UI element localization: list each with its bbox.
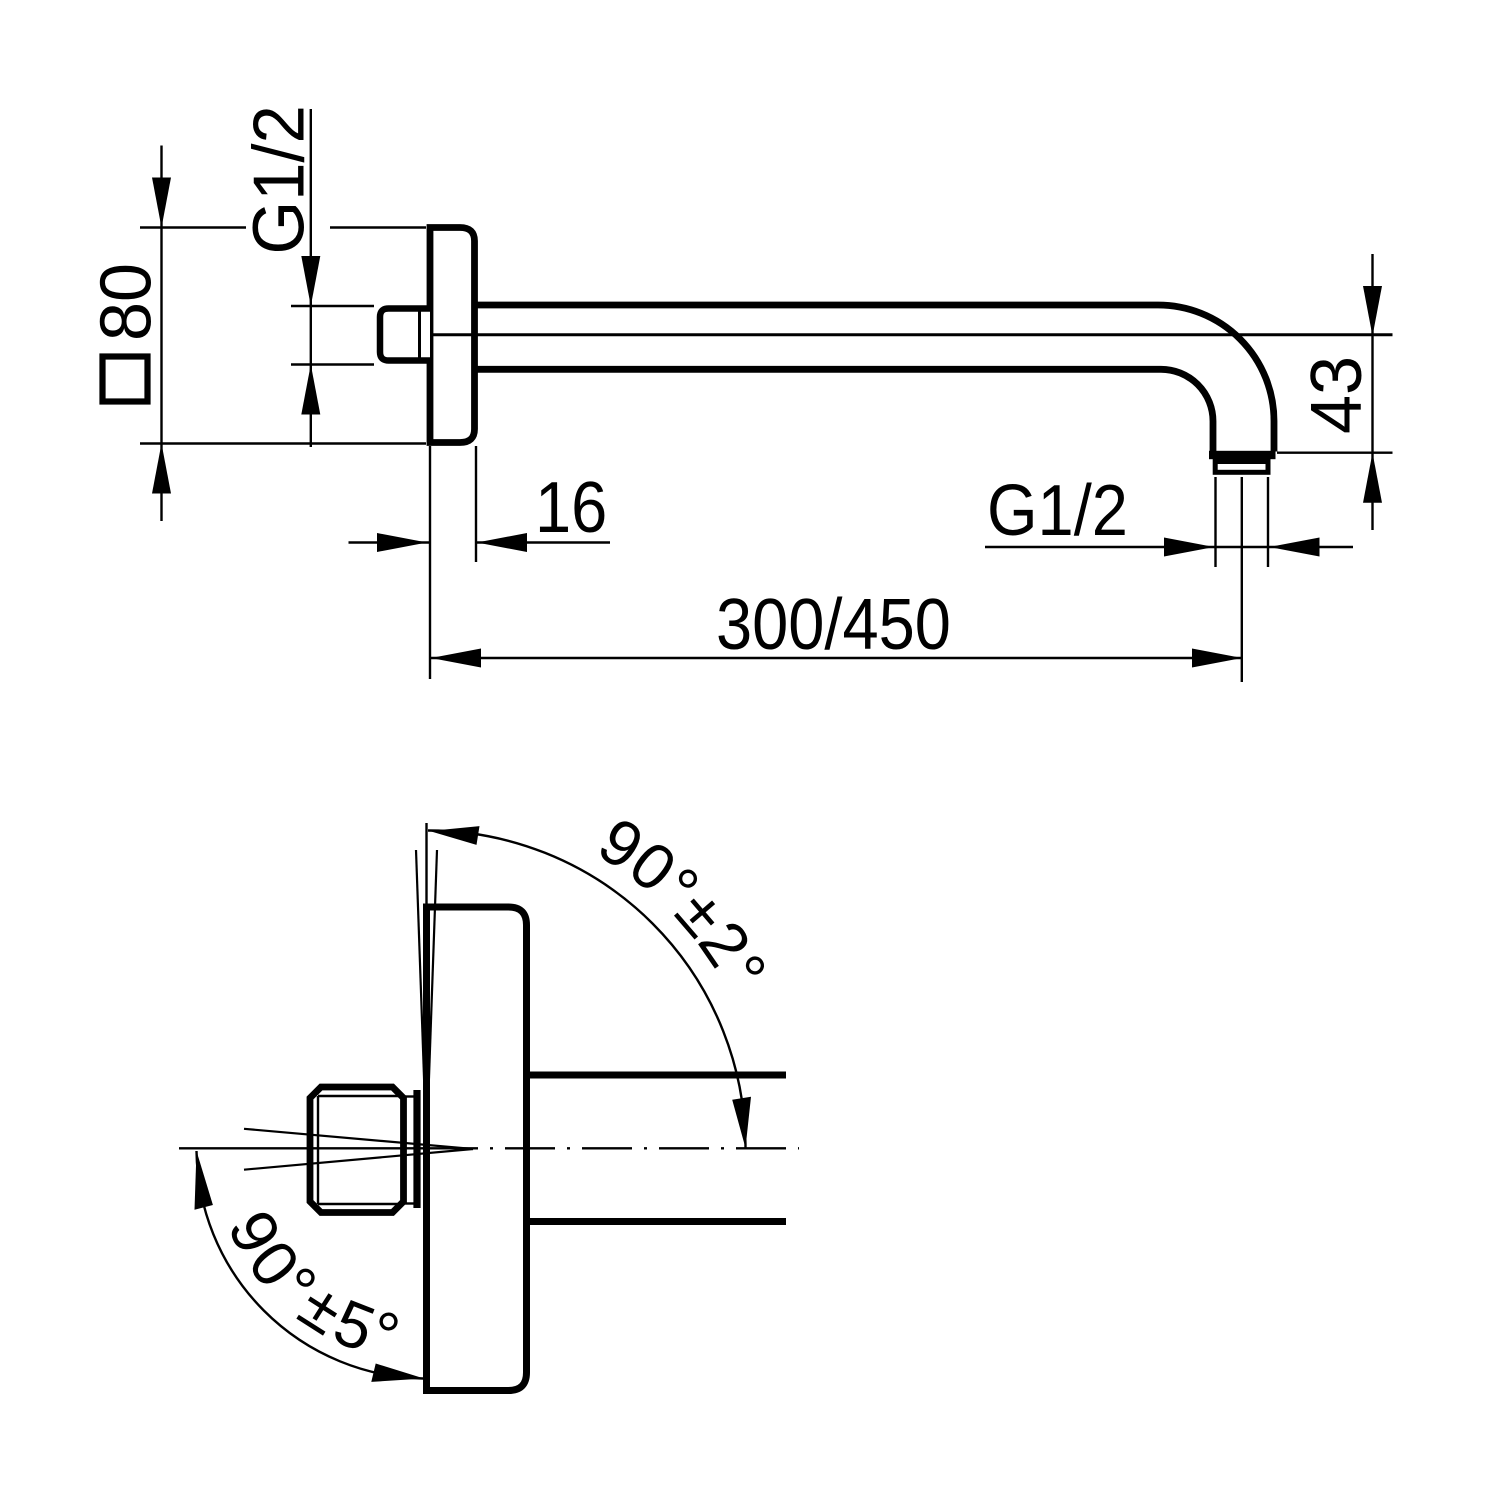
arrow arc2 top (points left)	[430, 826, 480, 845]
extension line outlet right	[1267, 477, 1269, 567]
outlet ring	[1215, 462, 1268, 473]
svg-text:43: 43	[1296, 356, 1377, 434]
G1/2 inlet thread boss (side view)	[380, 309, 430, 361]
wall flange (front/top view)	[427, 907, 527, 1391]
shower arm tube bottom line	[475, 366, 1162, 373]
shower arm tube top line	[475, 302, 1159, 309]
dimension 300/450: dimension line	[431, 657, 1242, 659]
angle arc 90±2	[428, 831, 746, 1149]
svg-text:16: 16	[535, 467, 607, 548]
tube top line (front view)	[530, 1072, 786, 1079]
tube bottom line (front view)	[530, 1218, 786, 1225]
arrow 300/450 left	[431, 649, 481, 668]
svg-text:300/450: 300/450	[716, 584, 951, 665]
dimension 16: dimension line right part	[476, 541, 610, 543]
arrow arc5 left (points up)	[195, 1151, 213, 1210]
dimension 80: extension line bottom	[140, 442, 426, 444]
thread runout band	[413, 1090, 420, 1208]
arrow 16 right	[477, 533, 527, 552]
axis centerline dash-dot part	[478, 1147, 799, 1149]
arrow arc2 end (points down)	[732, 1097, 751, 1148]
outlet collar band	[1209, 451, 1276, 459]
dimension G1/2 left: extension line top	[291, 305, 374, 307]
angle arc 90±5	[197, 1151, 424, 1379]
runout connector top	[404, 1095, 414, 1097]
thread boss inner line top	[318, 1095, 403, 1097]
dimension 43: extension line bottom	[1277, 452, 1393, 454]
dimension G1/2 left: dimension line	[310, 109, 312, 447]
svg-text:80: 80	[85, 263, 166, 341]
arrow arc5 end (points right)	[371, 1364, 424, 1382]
arrow G1/2 outlet right	[1270, 538, 1320, 557]
runout connector bottom	[404, 1202, 414, 1204]
arrow 43 top	[1363, 286, 1382, 336]
wall flange (side view)	[430, 228, 475, 443]
arrow 80 bottom	[152, 444, 171, 494]
tilt ray +5	[244, 1129, 473, 1149]
arrow 300/450 right	[1192, 649, 1242, 668]
dimension 43: dimension line	[1371, 254, 1373, 530]
arrow 16 left	[377, 533, 427, 552]
axis centerline solid part	[179, 1147, 478, 1149]
tilt ray -5	[244, 1149, 473, 1170]
dimension G1/2 outlet: dimension line	[985, 546, 1353, 548]
arrow G1/2 left top	[301, 256, 320, 306]
arrow 43 bottom	[1363, 453, 1382, 503]
face tilt line -2	[427, 850, 438, 1148]
vertical reference line	[425, 823, 427, 910]
tube inner bend arc	[1161, 369, 1213, 451]
tube centerline (thin)	[430, 333, 1393, 336]
dimension 80: extension line top	[140, 226, 246, 228]
svg-text:G1/2: G1/2	[987, 470, 1128, 551]
svg-text:G1/2: G1/2	[239, 105, 320, 254]
arrow G1/2 left bottom	[301, 365, 320, 415]
label square symbol	[103, 357, 148, 402]
dimension 16: extension line left (shared with 300/450)	[429, 446, 431, 679]
face tilt line +2	[416, 850, 427, 1148]
thread boss inner line vertical	[317, 1096, 319, 1204]
arrow 80 top	[152, 178, 171, 228]
thread boss (front/top view) outline	[310, 1087, 404, 1213]
dimension 16: extension line right	[475, 446, 477, 562]
dimension 80: dimension line	[160, 146, 162, 522]
tube outer bend arc	[1158, 305, 1274, 452]
thread chamfer line	[418, 312, 421, 358]
outlet centerline extension	[1241, 477, 1243, 682]
thread boss inner line bottom	[318, 1203, 403, 1205]
dimension 16: dimension line left part	[349, 541, 431, 543]
dimension G1/2 left: extension line bottom	[291, 363, 374, 365]
extension line outlet left	[1214, 477, 1216, 567]
arrow G1/2 outlet left	[1164, 538, 1214, 557]
